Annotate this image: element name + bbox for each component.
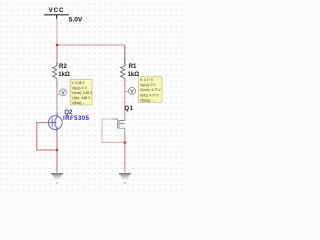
probe 1 annotation box [70,80,93,106]
ground (right) [119,174,131,184]
svg-text:R2: R2 [59,64,67,70]
wire R1 to Q1 [124,79,126,117]
svg-text:V(p-p): 0 V: V(p-p): 0 V [140,83,156,87]
wire top horizontal to right branch [57,44,124,46]
svg-text:5.0V: 5.0V [69,18,83,24]
wire Q1 source down to ground [124,132,126,173]
svg-text:V: 3.48 V: V: 3.48 V [72,81,86,85]
wire Q1 gate loop [102,119,125,143]
probe 2 annotation box [139,77,162,103]
resistor R2 [53,62,57,86]
svg-text:1kΩ: 1kΩ [128,72,140,78]
junction dot at VCC split [56,44,58,46]
svg-text:V(dc): 4.77 V: V(dc): 4.77 V [140,93,159,97]
svg-text:V(dc): 3.48 V: V(dc): 3.48 V [72,96,91,100]
svg-text:V(rms): 4.77 V: V(rms): 4.77 V [140,88,161,92]
svg-text:IRF5305: IRF5305 [63,116,90,122]
wire VCC down to junction and R2 [56,19,58,45]
probe 1 connector [57,94,60,96]
ground (left) [51,174,63,184]
svg-text:V(rms): 3.48 V: V(rms): 3.48 V [72,91,93,95]
junction dot Q2 gate/source [56,149,58,151]
svg-text:VCC: VCC [49,8,65,14]
svg-text:V(p-p): 0 V: V(p-p): 0 V [72,86,88,90]
wire R2 to Q2 [56,79,58,113]
svg-text:Q1: Q1 [124,106,133,112]
probe 2 connector [125,90,128,92]
probe 2 circle (V) [129,87,136,94]
svg-text:V(freq): --: V(freq): -- [72,101,86,105]
wire Q2 source down to ground [56,133,58,173]
power VCC symbol [44,8,69,19]
probe 1 circle (V) [60,89,67,96]
transistor Q1 (NMOS) [112,117,125,131]
wire Q2 gate loop [37,123,57,150]
resistor R1 [121,58,125,86]
svg-text:R1: R1 [129,64,137,70]
svg-text:1kΩ: 1kΩ [58,72,70,78]
transistor Q2 (IRF5305 PMOS in circle) [48,113,62,133]
svg-text:V(freq): --: V(freq): -- [140,98,154,102]
junction dot Q1 gate/source [124,141,126,143]
svg-text:V: 4.77 V: V: 4.77 V [140,78,154,82]
